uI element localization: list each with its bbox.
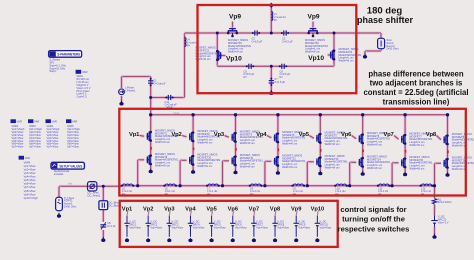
wire Vp10 left gate stem [221,54,226,57]
inductor L7 bus [208,184,218,186]
dc source SRC1 [126,216,128,224]
svg-text:Vdc=Vlow: Vdc=Vlow [298,225,310,229]
variables block VAR3 [28,119,33,123]
svg-text:Vp6: Vp6 [228,206,238,212]
wire input net P1 to box [59,185,121,188]
wire bottom bus artificial line [121,184,434,187]
svg-text:Cval=1.5: Cval=1.5 [76,95,87,99]
red node marker branch 2 [193,148,195,151]
ground SRC9 [295,238,297,240]
svg-text:VAR: VAR [25,156,30,160]
wire branch 4 middle [276,143,279,156]
ground branch 6 [362,171,364,174]
wire branch 6 upper gate [352,136,357,139]
svg-text:VAR: VAR [34,119,39,123]
svg-text:Vp5: Vp5 [206,206,216,212]
wire L4 riser to phase shifter [183,33,186,98]
transistor upper Q1a [146,133,148,140]
wire branch 2 source [192,166,195,170]
svg-text:Vp2: Vp2 [143,206,153,212]
wire branch 2 gate riser [179,160,182,185]
junction C11 tee [149,96,152,99]
junction top bus node 4 [276,113,279,116]
resistor R1 [432,199,436,205]
svg-text:Vp5=Vlow: Vp5=Vlow [24,178,36,182]
wire ps left vertical [216,33,219,66]
dc source SRC9 [295,216,297,224]
svg-text:turning on/off the: turning on/off the [342,215,405,224]
svg-text:Vp7=Vlow: Vp7=Vlow [24,185,36,189]
wire L3 shunt stub [270,7,273,34]
svg-text:C=0.5 pF: C=0.5 pF [252,39,263,43]
svg-text:Vp4=Vlow: Vp4=Vlow [24,175,36,179]
wire bias chain to R1 [433,186,436,198]
svg-text:Width=W um: Width=W um [282,165,297,169]
wire C11 horizontal [151,96,185,99]
ground branch 1 [150,169,152,172]
wire branch 5 lower gate [307,160,314,163]
dc source SRC5 [211,216,213,224]
svg-text:Vp2: Vp2 [171,132,182,138]
svg-text:Vp9: Vp9 [291,206,301,212]
terminal Term2 [378,38,385,48]
variables block VAR1 [76,70,82,74]
ground input shunt [121,101,123,104]
wire branch 7 gate riser [391,163,394,186]
svg-text:Vdc=Vlow: Vdc=Vlow [320,225,332,229]
capacitor C1 [148,80,153,82]
transistor upper Q6a [358,135,360,142]
svg-text:Width=W um: Width=W um [240,165,255,169]
svg-text:Width=W um: Width=W um [367,166,382,170]
ground Term2 [364,54,366,57]
svg-text:Vp2=Vlow: Vp2=Vlow [24,168,36,172]
variables block VAR5 [66,119,71,123]
wire branch 2 drain [192,115,195,132]
dc source SRC8 [274,216,276,224]
svg-text:C=Cval pF: C=Cval pF [153,81,166,85]
wire stub Vp2 [147,211,150,216]
svg-text:Vp3: Vp3 [214,132,225,138]
dc source SRC6 [232,216,234,224]
wire branch 1 lower gate [138,158,145,161]
svg-text:Vp10: Vp10 [226,55,242,62]
svg-text:Vp7=Vlow: Vp7=Vlow [47,145,59,149]
capacitor C7 shunt [269,80,274,82]
wire Term2 bottom [379,49,382,52]
wire branch 7 drain [404,115,407,134]
wire to DC_Block1 [102,186,105,201]
wire top bus Vout [151,113,448,116]
svg-text:transmission line): transmission line) [383,97,450,106]
wire stub Vp7 [253,211,256,216]
inductor L11 bus [379,184,389,186]
ground branch 3 [235,170,237,173]
svg-text:Width=W um: Width=W um [197,141,212,145]
svg-text:Width=W um: Width=W um [409,143,424,147]
svg-text:C=0.5 pF: C=0.5 pF [274,80,285,84]
variables block VAR2 [11,119,16,123]
ground SRC1 [126,238,128,240]
transistor Q-Vp9-left [229,28,236,30]
wire branch 2 middle [192,142,195,155]
annotation box switch branches [119,109,466,196]
capacitor C8 input [100,224,106,226]
svg-text:Vdc=Vlow: Vdc=Vlow [193,225,205,229]
wire to I_Probe1 [120,77,123,89]
wire stub Vp4 [189,211,192,216]
svg-text:I_Probe1: I_Probe1 [125,88,136,92]
svg-text:VAR: VAR [52,119,57,123]
wire C8 to ground [102,230,105,238]
setup block SETUP VALUES [51,162,84,169]
annotation box control signals [120,201,338,247]
svg-text:Width=W um: Width=W um [452,144,467,148]
inductor L3 shunt [271,12,273,21]
junction bus riser 5 [306,184,309,187]
junction bus riser 7 [391,184,394,187]
wire stub Vp8 [274,211,277,216]
junction bottom center [270,65,273,68]
red node marker branch 8 [447,151,449,154]
ground branch 2 [192,169,194,172]
wire branch 3 source [234,166,237,170]
wire C1 branch vertical to Vp1 [149,77,152,132]
wire I_Probe1 to ground [120,96,123,102]
transistor upper Q5a [316,135,318,142]
svg-text:Vp8: Vp8 [426,132,437,138]
dc source SRC7 [253,216,255,224]
ground branch 8 [447,172,449,175]
transistor lower Q7b [401,159,403,166]
svg-text:Width=W um: Width=W um [155,140,170,144]
current probe I_Probe1 [119,89,125,95]
svg-text:Vp9=Vlow: Vp9=Vlow [24,192,36,196]
svg-text:Vin: Vin [68,182,72,186]
svg-text:Width=W um: Width=W um [282,142,297,146]
ground branch 5 [319,171,321,174]
wire stub Vp1 [126,211,129,216]
red node marker branch 7 [405,150,407,153]
wire PORT1 riser [57,186,60,197]
svg-text:Width=W um: Width=W um [228,50,243,54]
wire branch 3 gate riser [221,161,224,186]
wire branch 1 source [149,165,152,169]
wire branch 3 drain [234,115,237,132]
svg-text:Vdc=Vlow: Vdc=Vlow [256,225,268,229]
wire branch 2 lower gate [180,159,187,162]
junction bus riser 2 [179,184,182,187]
dc source SRC10 [316,216,318,224]
transistor upper Q8a [443,136,445,143]
svg-text:Vp5: Vp5 [299,132,310,138]
ground SRC2 [147,238,149,240]
svg-text:DC_Feed1: DC_Feed1 [88,193,101,197]
svg-text:respective switches: respective switches [338,224,410,233]
ground SRC6 [232,238,234,240]
svg-text:Vdc=Vlow: Vdc=Vlow [214,225,226,229]
wire branch 7 source [404,168,407,172]
wire ps right vertical [332,33,335,66]
wire DC_Block1 to C8 [102,210,105,222]
svg-text:control signals for: control signals for [340,205,406,214]
svg-text:Vdc=-2 V: Vdc=-2 V [438,220,449,224]
svg-text:R=: R= [280,75,284,79]
wire stub Vp5 [211,211,214,216]
svg-text:VAR: VAR [82,70,88,74]
junction bus riser 4 [263,184,266,187]
ground SRC4 [189,238,191,240]
inductor L10 bus [336,184,346,186]
svg-text:Width=W um: Width=W um [240,141,255,145]
wire Term2 ground stub [363,51,366,55]
wire branch 6 drain [361,115,364,134]
svg-text:VAR: VAR [17,119,22,123]
wire branch 4 drain [276,115,279,133]
junction top bus node 5 [319,113,322,116]
wire to Term2 [379,33,382,39]
ground SRC5 [211,238,213,240]
svg-text:Width=W um: Width=W um [367,143,382,147]
svg-text:R=: R= [187,43,191,47]
wire branch 5 middle [319,144,322,157]
svg-text:Vp6: Vp6 [341,132,352,138]
svg-text:Vp8: Vp8 [270,206,280,212]
inductor L6 bus [165,184,175,186]
wire branch 4 lower gate [265,160,272,163]
wire SRC22 to ground [433,227,436,235]
junction top bus node 7 [403,113,406,116]
svg-text:Vout: Vout [174,111,180,115]
red node marker branch 6 [362,150,364,153]
transistor upper Q7a [401,136,403,143]
svg-text:Vp7: Vp7 [249,206,259,212]
wire branch 5 source [319,167,322,171]
variables block VAR4 [46,119,51,123]
junction bus riser 8 [433,184,436,187]
svg-text:Vdc=Vlow: Vdc=Vlow [277,225,289,229]
wire branch 8 lower gate [435,162,442,165]
svg-text:Vp6=Vlow: Vp6=Vlow [24,182,36,186]
junction top bus node 2 [191,113,194,116]
svg-text:Include1: Include1 [54,172,64,176]
transistor lower Q1b [146,156,148,163]
svg-text:Step=: Step= [49,69,56,73]
junction top bus node 1 [149,113,152,116]
simulation block S-PARAMETERS [49,51,82,58]
wire branch 8 drain [446,115,449,135]
red node marker branch 3 [235,148,237,151]
svg-text:Width=W um: Width=W um [325,142,340,146]
svg-text:Vp1: Vp1 [129,132,140,138]
capacitor C2 [254,30,256,35]
dc feed DC_Feed1 [88,182,97,191]
svg-text:Vp3: Vp3 [164,206,174,212]
transistor lower Q4b [274,158,276,165]
svg-text:R=: R= [274,18,278,22]
wire branch 4 source [276,167,279,171]
wire branch 4 gate riser [263,161,266,185]
wire branch 1 middle [149,142,152,155]
wire branch 1 upper gate [140,134,145,138]
wire branch 3 middle [234,143,237,156]
svg-text:Width=W um: Width=W um [452,167,467,171]
red node marker branch 1 [150,147,152,150]
wire phase shifter top line [185,31,382,34]
ground bias chain [434,234,436,237]
transistor lower Q5b [316,158,318,165]
wire branch 5 drain [319,115,322,133]
junction top bus node 3 [234,113,237,116]
wire branch 8 middle [446,145,449,158]
svg-text:Width=W um: Width=W um [155,164,170,168]
wire Vp10 right gate stem [328,53,331,56]
capacitor C3 [283,30,285,35]
wire branch 8 gate riser [433,163,436,185]
transistor lower Q6b [358,159,360,166]
svg-text:Vp9: Vp9 [307,13,319,20]
svg-text:Vp7=Vlow: Vp7=Vlow [12,145,24,149]
red node marker branch 4 [278,149,280,152]
svg-text:Vp4: Vp4 [256,132,267,138]
svg-text:Width=W um: Width=W um [305,50,320,54]
svg-text:VAR6: VAR6 [24,160,31,164]
red node marker branch 5 [320,149,322,152]
svg-text:C=1 uF: C=1 uF [107,224,116,228]
svg-text:constant = 22.5deg (artificial: constant = 22.5deg (artificial [363,88,468,97]
svg-text:R=10 kOhm: R=10 kOhm [438,200,452,204]
dc source SRC22 [431,220,437,222]
wire C7 shunt to ground [270,66,273,90]
svg-text:Vp10=Vhigh: Vp10=Vhigh [24,196,39,200]
wire branch 7 upper gate [394,136,399,140]
ground branch 4 [277,170,279,173]
svg-text:Vp1: Vp1 [122,206,132,212]
inductor L5 bus [123,184,133,186]
variables block VAR6 [19,156,24,160]
wire input loop top [122,75,151,78]
transistor lower Q8b [443,160,445,167]
ground SRC10 [316,238,318,240]
wire stub Vp10 [316,211,319,216]
wire branch 7 lower gate [392,161,399,164]
inductor L8 bus [251,184,261,186]
svg-text:Vp9: Vp9 [229,13,241,20]
inductor L9 bus [293,184,303,186]
junction bus riser 1 [136,184,139,187]
wire branch 4 upper gate [267,136,272,138]
dc source SRC3 [168,216,170,224]
svg-text:phase difference between: phase difference between [368,69,464,78]
svg-text:phase shifter: phase shifter [357,15,414,25]
junction ps left [216,32,219,35]
wire branch 6 middle [361,144,364,157]
wire R1 to SRC22 [433,205,436,216]
svg-text:Vp7=Vlow: Vp7=Vlow [29,145,41,149]
inductor L12 bus [421,184,431,186]
svg-text:Vp7: Vp7 [383,132,394,138]
transistor upper Q2a [189,133,191,140]
wire Vp9 left gate stem [231,22,234,28]
ground phase shifter [270,90,272,93]
wire branch 3 lower gate [223,159,230,162]
ground SRC8 [274,238,276,240]
junction top bus node 8 [446,113,449,116]
svg-text:Vdc=Vlow: Vdc=Vlow [172,225,184,229]
capacitor C5 [248,64,250,69]
wire Term2 to ground leg [365,49,381,52]
dc source SRC2 [147,216,149,224]
svg-text:Width=W um: Width=W um [197,164,212,168]
junction bus riser 6 [348,184,351,187]
svg-text:two adjacent branches is: two adjacent branches is [370,79,463,88]
svg-text:VAR: VAR [72,119,77,123]
wire branch 2 upper gate [182,136,187,137]
svg-text:C=0.5 pF: C=0.5 pF [282,39,293,43]
transistor Q-Vp10-left [220,52,222,59]
wire branch 1 gate riser [136,160,139,186]
junction top bus node 6 [361,113,364,116]
svg-text:Vp1=Vlow: Vp1=Vlow [24,164,36,168]
ground SRC3 [168,238,170,240]
transistor Q-Vp9-right [310,28,317,30]
port source P_1Tone PORT1 [56,197,63,210]
transistor Q-Vp10-right [330,52,332,59]
wire stub Vp3 [168,211,171,216]
ground branch 7 [404,172,406,175]
svg-text:Vp3=Vlow: Vp3=Vlow [24,171,36,175]
capacitor C11 [167,95,169,100]
wire Vp9 right gate stem [311,22,314,28]
svg-text:Vp10: Vp10 [308,55,324,62]
dc source SRC4 [189,216,191,224]
inductor L4 [185,38,187,47]
annotation box 180deg phase shifter [198,5,357,93]
svg-text:Vp7=Vlow: Vp7=Vlow [67,145,79,149]
wire branch 5 upper gate [309,136,314,139]
svg-text:Vp10: Vp10 [311,206,325,212]
wire branch 6 lower gate [350,161,357,164]
ground C8 [102,237,104,240]
svg-text:Z=50 Ohm: Z=50 Ohm [386,47,398,51]
svg-text:Vp4: Vp4 [185,206,196,212]
junction DC_Block tee [102,185,105,188]
ground PORT1 [58,213,60,216]
wire branch 8 upper gate [437,136,442,140]
junction top center [270,32,273,35]
wire stub Vp9 [295,211,298,216]
svg-text:Width=W um: Width=W um [325,166,340,170]
svg-text:Vdc=Vlow: Vdc=Vlow [129,225,141,229]
dc block DC_Block1 [99,201,108,210]
svg-text:R=: R= [244,75,248,79]
transistor lower Q2b [189,157,191,164]
svg-text:Z=50 Ohm: Z=50 Ohm [64,205,76,209]
svg-text:Vdc=Vlow: Vdc=Vlow [235,225,247,229]
node diamond top [269,3,274,8]
wire branch 8 source [446,169,449,173]
wire branch 6 source [361,168,364,172]
junction bus riser 3 [221,184,224,187]
wire ps bottom line [217,65,334,68]
wire branch 5 gate riser [306,162,309,186]
junction ps right [333,32,336,35]
transistor lower Q3b [231,157,233,164]
ground SRC7 [253,238,255,240]
capacitor C6 [281,64,283,69]
transistor upper Q4a [274,134,276,141]
svg-text:SETUP VALUES: SETUP VALUES [59,165,83,169]
